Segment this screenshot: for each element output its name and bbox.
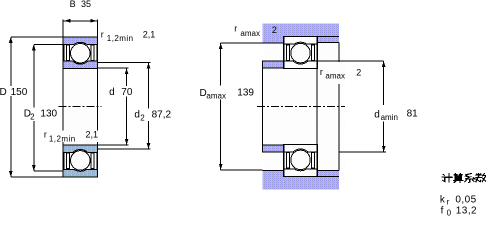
svg-text:1,2min: 1,2min xyxy=(107,34,134,43)
svg-text:B: B xyxy=(70,0,76,9)
svg-text:35: 35 xyxy=(81,0,91,9)
svg-text:2,1: 2,1 xyxy=(86,130,99,140)
svg-text:r: r xyxy=(44,130,47,140)
svg-text:2: 2 xyxy=(272,25,277,35)
svg-text:1,2min: 1,2min xyxy=(49,134,76,143)
svg-text:13,2: 13,2 xyxy=(456,206,477,217)
svg-text:amax: amax xyxy=(206,92,226,101)
svg-text:D: D xyxy=(0,87,7,98)
svg-text:150: 150 xyxy=(11,87,28,98)
svg-text:r: r xyxy=(447,198,450,207)
svg-text:r: r xyxy=(234,24,237,34)
svg-text:r: r xyxy=(320,67,323,77)
svg-text:81: 81 xyxy=(407,109,419,120)
svg-text:130: 130 xyxy=(40,108,57,119)
svg-text:70: 70 xyxy=(121,87,133,98)
svg-text:amax: amax xyxy=(325,72,345,81)
svg-text:k: k xyxy=(440,194,446,205)
svg-text:r: r xyxy=(101,29,104,39)
svg-text:amax: amax xyxy=(240,29,260,38)
svg-text:2: 2 xyxy=(30,112,35,121)
svg-text:0,05: 0,05 xyxy=(455,194,476,205)
svg-text:d: d xyxy=(374,110,380,121)
svg-text:d: d xyxy=(109,87,115,98)
svg-text:2,1: 2,1 xyxy=(143,29,156,39)
svg-text:139: 139 xyxy=(237,88,254,99)
svg-text:f: f xyxy=(441,206,444,217)
svg-text:d: d xyxy=(134,110,140,121)
svg-text:2: 2 xyxy=(356,68,361,78)
svg-text:2: 2 xyxy=(140,113,145,122)
svg-text:0: 0 xyxy=(447,209,452,218)
svg-text:amin: amin xyxy=(381,113,398,122)
svg-text:87,2: 87,2 xyxy=(152,110,172,121)
